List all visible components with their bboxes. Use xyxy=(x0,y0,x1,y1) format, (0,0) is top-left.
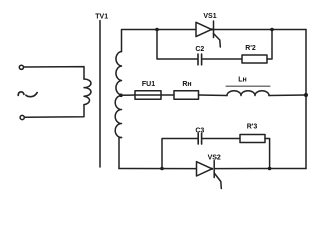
wire bottom rail left xyxy=(119,168,197,170)
wire snubber2 right branch xyxy=(265,139,270,169)
AC source tilde symbol xyxy=(18,92,24,96)
capacitor C3 xyxy=(198,133,201,144)
resistor R'3 xyxy=(240,135,265,143)
wire C3 to R'3 xyxy=(202,138,240,140)
node junction top-right of snubber1 xyxy=(270,28,274,32)
resistor Rн xyxy=(174,91,199,100)
wire top rail right xyxy=(214,29,307,31)
node junction bottom-left of snubber2 xyxy=(160,167,164,171)
wire bottom rail right xyxy=(214,168,306,170)
transformer TV1 primary winding xyxy=(84,79,91,105)
wire primary top xyxy=(24,67,84,79)
capacitor C2 xyxy=(198,54,202,65)
AC source terminal bottom xyxy=(20,115,24,119)
inductor Lн winding xyxy=(227,91,269,96)
node transformer tap xyxy=(119,94,123,98)
svg-text:VS2: VS2 xyxy=(208,154,221,161)
thyristor VS2 xyxy=(197,161,222,189)
svg-text:R'2: R'2 xyxy=(245,45,256,52)
svg-text:TV1: TV1 xyxy=(95,13,108,20)
transformer TV1 secondary winding lower xyxy=(115,96,121,138)
wire secondary top lead and top rail left xyxy=(122,30,197,52)
thyristor VS1 xyxy=(196,21,220,47)
wire tap to fuse xyxy=(121,94,135,96)
svg-text:Lн: Lн xyxy=(238,77,247,84)
fuse FU1 xyxy=(135,91,174,100)
wire C2 to R'2 xyxy=(202,58,242,60)
svg-text:R'3: R'3 xyxy=(247,124,258,131)
AC source terminal top xyxy=(19,65,23,69)
wire primary bottom xyxy=(25,105,85,118)
wire right vertical rail xyxy=(305,30,307,169)
wire snubber1 left branch xyxy=(157,30,198,60)
svg-text:FU1: FU1 xyxy=(142,81,155,88)
inductor Lн core line xyxy=(226,85,270,87)
node junction right rail middle xyxy=(304,93,308,97)
node junction bottom-right of snubber2 xyxy=(268,167,272,171)
svg-text:Rн: Rн xyxy=(182,81,191,88)
wire secondary bottom lead xyxy=(119,138,122,169)
transformer TV1 secondary winding upper xyxy=(116,52,122,96)
wire Lн to right rail xyxy=(269,94,306,97)
svg-text:C3: C3 xyxy=(195,128,204,135)
wire snubber2 left branch xyxy=(162,139,198,169)
resistor R'2 xyxy=(242,55,267,63)
wire Rн to Lн xyxy=(199,94,228,97)
wire snubber1 right branch xyxy=(267,30,272,60)
node junction top-left of snubber1 xyxy=(155,28,159,32)
svg-text:VS1: VS1 xyxy=(203,13,216,20)
transformer TV1 core xyxy=(99,21,101,168)
svg-text:C2: C2 xyxy=(195,46,204,53)
